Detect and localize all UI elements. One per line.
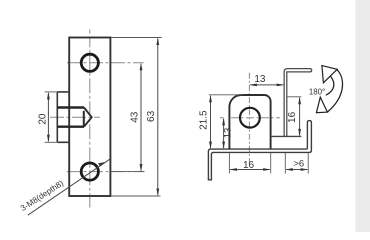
svg-text:43: 43 [130,111,141,123]
svg-text:3-M8(depth8): 3-M8(depth8) [19,179,65,213]
svg-text:16: 16 [287,111,298,123]
svg-text:13: 13 [223,128,234,139]
svg-text:16: 16 [243,160,255,171]
svg-text:63: 63 [146,110,157,122]
svg-text:21.5: 21.5 [199,110,210,130]
svg-text:>6: >6 [293,159,304,170]
svg-text:20: 20 [37,113,48,125]
svg-text:180°: 180° [309,87,325,96]
svg-text:13: 13 [254,74,266,85]
